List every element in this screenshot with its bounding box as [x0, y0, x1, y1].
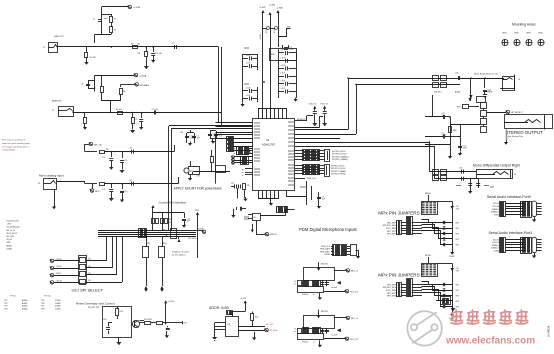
- svg-text:SCLK: SCLK: [57, 266, 63, 268]
- svg-text:MISO: MISO: [57, 273, 62, 275]
- svg-text:SDATA_O: SDATA_O: [491, 211, 500, 214]
- svg-text:GP3: GP3: [455, 239, 459, 241]
- svg-text:R45 49.9: R45 49.9: [434, 92, 442, 94]
- svg-text:GP0: GP0: [455, 285, 459, 287]
- svg-text:Pull-down, R select: Pull-down, R select: [172, 251, 190, 254]
- svg-text:R7: R7: [94, 88, 96, 90]
- svg-text:STEREO OUTPUT: STEREO OUTPUT: [506, 130, 544, 135]
- svg-text:aspect on a pour sounding page: aspect on a pour sounding pages: [2, 142, 30, 145]
- svg-text:xx: xx: [313, 294, 315, 296]
- svg-text:100: 100: [137, 44, 140, 46]
- svg-text:C8: C8: [81, 84, 83, 86]
- svg-text:TP4: TP4: [4, 308, 7, 310]
- svg-text:DGND: DGND: [55, 308, 61, 310]
- svg-text:Serial Audio Interface-Port0: Serial Audio Interface-Port0: [487, 195, 531, 199]
- svg-text:TP7: TP7: [41, 306, 44, 308]
- svg-text:10: 10: [294, 329, 296, 331]
- svg-text:MICVDD: MICVDD: [321, 264, 329, 266]
- svg-text:DGND: DGND: [449, 256, 455, 258]
- svg-text:+3.3VD: +3.3VD: [168, 301, 175, 303]
- svg-text:0.1UF: 0.1UF: [281, 88, 285, 90]
- svg-text:R19: R19: [120, 311, 123, 313]
- svg-text:DGND: DGND: [6, 248, 12, 250]
- svg-text:MP3_SEL: MP3_SEL: [387, 234, 395, 236]
- svg-text:MPx PIN JUMPERS: MPx PIN JUMPERS: [378, 210, 419, 215]
- svg-text:C7: C7: [172, 43, 174, 45]
- svg-text:+3.3VD: +3.3VD: [269, 5, 276, 7]
- svg-text:MIC_L1: MIC_L1: [351, 270, 359, 272]
- svg-text:no-stuff: no-stuff: [331, 286, 337, 289]
- svg-text:MP0_SEL: MP0_SEL: [387, 284, 395, 286]
- svg-text:SCLK_JMP: SCLK_JMP: [386, 290, 396, 292]
- svg-text:R17: R17: [147, 243, 150, 245]
- svg-text:SPORT0_SDATA_O: SPORT0_SDATA_O: [332, 155, 350, 158]
- svg-text:DGND: DGND: [55, 306, 61, 308]
- svg-text:xx: xx: [313, 342, 315, 344]
- svg-text:C30: C30: [103, 319, 106, 321]
- svg-text:MPx PIN JUMPERS: MPx PIN JUMPERS: [378, 272, 419, 277]
- svg-text:SDATA_I: SDATA_I: [492, 244, 500, 247]
- svg-text:TP1: TP1: [4, 300, 7, 302]
- svg-text:MP3_SEL: MP3_SEL: [387, 296, 395, 298]
- svg-text:+1.8VD: +1.8VD: [259, 7, 266, 9]
- svg-text:C15: C15: [124, 160, 127, 162]
- svg-text:GP1: GP1: [455, 290, 459, 292]
- svg-text:R5: R5: [131, 44, 133, 46]
- svg-text:If the scale of each block of: If the scale of each block of: [2, 139, 25, 142]
- svg-text:no-stuff: no-stuff: [331, 333, 337, 336]
- svg-text:I2C_SCL: I2C_SCL: [266, 324, 273, 326]
- svg-text:0.1UF: 0.1UF: [281, 73, 285, 75]
- svg-text:BCLK0: BCLK0: [493, 239, 499, 241]
- svg-text:MIC_L2: MIC_L2: [351, 318, 359, 320]
- svg-text:GP2: GP2: [455, 234, 459, 236]
- svg-text:SDATA_I: SDATA_I: [492, 208, 500, 211]
- svg-text:PDM_CLK: PDM_CLK: [307, 178, 317, 180]
- svg-text:C11 1uF: C11 1uF: [152, 109, 160, 111]
- svg-text:C50: C50: [459, 168, 462, 170]
- svg-text:0R_no_fit: 0R_no_fit: [6, 229, 15, 232]
- svg-text:Mono analog input: Mono analog input: [39, 173, 64, 177]
- svg-text:LRCLK0: LRCLK0: [492, 206, 499, 208]
- svg-text:R48: R48: [453, 130, 456, 132]
- svg-text:AGND: AGND: [22, 302, 28, 305]
- svg-text:Mounting Holes: Mounting Holes: [512, 23, 536, 27]
- svg-text:GP0: GP0: [455, 223, 459, 225]
- svg-text:AGND: AGND: [22, 299, 28, 302]
- svg-text:R22: R22: [255, 317, 258, 319]
- svg-text:xx: xx: [242, 175, 244, 177]
- svg-text:C22: C22: [231, 183, 234, 185]
- svg-text:C41: C41: [487, 91, 490, 93]
- svg-text:for I2C address: for I2C address: [172, 255, 186, 257]
- svg-text:TP nets: TP nets: [44, 295, 51, 298]
- svg-text:GP4: GP4: [455, 245, 459, 247]
- svg-text:J4: J4: [518, 79, 520, 81]
- svg-text:PDM mic: PDM mic: [302, 342, 309, 344]
- svg-text:PB_RST JP9: PB_RST JP9: [88, 307, 99, 309]
- svg-text:R8: R8: [123, 91, 125, 93]
- svg-text:+3.3VD: +3.3VD: [240, 298, 247, 300]
- svg-text:DGND: DGND: [55, 300, 61, 302]
- svg-text:DGND: DGND: [198, 228, 204, 230]
- svg-text:SPORT0_LRCLK: SPORT0_LRCLK: [332, 154, 347, 156]
- svg-text:SCL/SCLK: SCL/SCLK: [188, 238, 198, 240]
- svg-text:www.elecfans.com: www.elecfans.com: [445, 336, 535, 347]
- svg-text:R11: R11: [106, 149, 109, 151]
- svg-text:xx: xx: [233, 148, 235, 150]
- svg-text:GP1: GP1: [455, 228, 459, 230]
- svg-text:GND: GND: [6, 242, 11, 244]
- svg-text:SPORT1_SDATA: SPORT1_SDATA: [331, 170, 346, 173]
- svg-text:MIC_R2: MIC_R2: [351, 339, 359, 341]
- svg-text:10: 10: [294, 281, 296, 283]
- svg-text:xx: xx: [294, 331, 296, 333]
- svg-text:AINR/JP2: AINR/JP2: [52, 99, 62, 102]
- svg-text:0.1UF: 0.1UF: [281, 50, 285, 52]
- svg-text:VDD: VDD: [195, 210, 200, 212]
- svg-text:GP3: GP3: [455, 301, 459, 303]
- svg-text:Power/Test Pts: Power/Test Pts: [6, 220, 19, 223]
- svg-text:AINL/JP1: AINL/JP1: [54, 35, 64, 38]
- svg-text:TP5: TP5: [41, 300, 44, 302]
- svg-text:SPORT0_SDATA_I: SPORT0_SDATA_I: [332, 158, 349, 161]
- svg-text:PDM_DAT0: PDM_DAT0: [320, 248, 330, 251]
- svg-text:SPORT0_BCLK: SPORT0_BCLK: [332, 151, 346, 153]
- svg-text:xx: xx: [233, 151, 235, 153]
- svg-text:0.1UF: 0.1UF: [246, 63, 250, 65]
- svg-text:C40: C40: [455, 73, 458, 75]
- svg-text:I2C/ SPI SELECT: I2C/ SPI SELECT: [72, 287, 104, 292]
- svg-text:0.1UF: 0.1UF: [246, 55, 250, 57]
- svg-text:Jack Stacked Twin: Jack Stacked Twin: [508, 135, 524, 138]
- svg-text:PDM_CLK: PDM_CLK: [321, 246, 331, 248]
- svg-text:09-048534: 09-048534: [549, 325, 551, 337]
- svg-text:MPSEL: MPSEL: [425, 193, 431, 195]
- svg-text:U4: U4: [253, 217, 255, 219]
- svg-text:TP2: TP2: [4, 303, 7, 305]
- svg-text:TP8: TP8: [41, 308, 44, 310]
- svg-text:GP2: GP2: [455, 296, 459, 298]
- svg-text:PDM_DAT1: PDM_DAT1: [320, 250, 330, 253]
- svg-text:I2C_SDA: I2C_SDA: [270, 329, 278, 332]
- svg-text:Technical Body: Technical Body: [2, 150, 15, 152]
- svg-text:C20: C20: [180, 132, 183, 134]
- svg-text:0.1UF: 0.1UF: [246, 95, 250, 97]
- svg-text:+3.3VA: +3.3VA: [139, 75, 147, 78]
- svg-text:DGND: DGND: [494, 251, 500, 253]
- svg-text:TP6: TP6: [41, 303, 44, 305]
- svg-text:SCLK_JMP: SCLK_JMP: [386, 228, 396, 230]
- svg-text:Ground/Straight: Ground/Straight: [6, 226, 20, 229]
- svg-text:R9 100: R9 100: [116, 109, 122, 111]
- svg-text:0.1UF: 0.1UF: [281, 80, 285, 82]
- svg-text:DGND: DGND: [324, 254, 330, 256]
- svg-text:SS_M: SS_M: [57, 280, 63, 282]
- svg-text:+1.8VA: +1.8VA: [259, 34, 262, 40]
- svg-text:PVDD_XT: PVDD_XT: [321, 103, 329, 105]
- svg-text:DGND: DGND: [55, 303, 61, 305]
- svg-text:MICBIAS: MICBIAS: [140, 84, 150, 87]
- svg-text:C19: C19: [124, 191, 127, 193]
- svg-text:R18: R18: [163, 243, 166, 245]
- svg-text:TP3: TP3: [4, 306, 7, 308]
- svg-text:+3V3: +3V3: [6, 224, 10, 226]
- svg-text:MP1/SDO_SEL: MP1/SDO_SEL: [383, 225, 395, 227]
- svg-text:MP1/SDO_SEL: MP1/SDO_SEL: [383, 287, 395, 289]
- svg-text:Control Port-Interface: Control Port-Interface: [159, 201, 187, 205]
- svg-text:J15_A: J15_A: [6, 238, 12, 241]
- svg-text:MOSI: MOSI: [57, 259, 62, 261]
- svg-text:HP_DETECT: HP_DETECT: [511, 112, 524, 114]
- svg-text:LRCLK0: LRCLK0: [492, 242, 499, 244]
- svg-text:Reset Generator and Control: Reset Generator and Control: [76, 301, 115, 305]
- svg-text:MH2: MH2: [515, 33, 519, 35]
- svg-text:GP4: GP4: [455, 307, 459, 309]
- svg-text:MH4: MH4: [539, 33, 543, 35]
- svg-text:SDATA_O: SDATA_O: [491, 247, 500, 250]
- svg-text:Mono Differential Output Right: Mono Differential Output Right: [473, 163, 520, 167]
- svg-text:MICVDD: MICVDD: [321, 311, 329, 313]
- svg-text:MP2_SEL: MP2_SEL: [387, 293, 395, 295]
- svg-text:DGND: DGND: [494, 214, 500, 216]
- svg-text:R25: R25: [247, 185, 250, 187]
- svg-text:C13: C13: [129, 148, 132, 150]
- svg-text:AGND: AGND: [455, 91, 461, 94]
- svg-text:Serial Audio Interface-Port1: Serial Audio Interface-Port1: [489, 231, 533, 235]
- svg-text:SPORT1_LRCLK: SPORT1_LRCLK: [331, 168, 346, 170]
- svg-text:R20 100K: R20 100K: [144, 319, 153, 321]
- svg-text:C6: C6: [93, 19, 95, 21]
- svg-text:C4 1uF: C4 1uF: [156, 53, 163, 55]
- svg-text:ADAU1787: ADAU1787: [262, 142, 276, 146]
- svg-text:+1.8VA: +1.8VA: [276, 7, 283, 10]
- svg-text:xx: xx: [294, 284, 296, 286]
- svg-text:R6: R6: [138, 53, 140, 55]
- svg-text:R15: R15: [197, 176, 200, 178]
- svg-text:C9: C9: [135, 119, 137, 121]
- svg-text:AGND: AGND: [22, 305, 28, 308]
- svg-text:SPORT1_BCLK: SPORT1_BCLK: [331, 166, 345, 168]
- svg-text:MP_JMP: MP_JMP: [6, 236, 14, 238]
- svg-text:APPLY SHUNT FOR powerdown: APPLY SHUNT FOR powerdown: [174, 186, 222, 190]
- svg-text:MIC_R1: MIC_R1: [351, 291, 359, 293]
- svg-text:Mono Single-End Line Out: Mono Single-End Line Out: [474, 73, 499, 76]
- svg-text:SPORT1_FSYNC: SPORT1_FSYNC: [331, 174, 347, 176]
- svg-text:MH3: MH3: [527, 33, 531, 35]
- svg-text:SELF_BOOT: SELF_BOOT: [6, 233, 18, 235]
- svg-text:0.1UF: 0.1UF: [281, 65, 285, 67]
- svg-text:C18: C18: [102, 189, 105, 191]
- svg-text:MIC_IN: MIC_IN: [94, 145, 102, 147]
- svg-text:PDM mic: PDM mic: [302, 294, 309, 296]
- svg-text:PDM Digital Microphone Inputs: PDM Digital Microphone Inputs: [299, 227, 357, 232]
- svg-text:DVDD_XT: DVDD_XT: [309, 103, 317, 105]
- svg-text:xx: xx: [242, 172, 244, 174]
- svg-text:C17: C17: [129, 180, 132, 182]
- svg-text:AGND: AGND: [6, 244, 12, 247]
- svg-text:AGND: AGND: [22, 307, 28, 310]
- svg-text:0.1UF: 0.1UF: [246, 87, 250, 89]
- svg-text:C14: C14: [102, 157, 105, 159]
- svg-text:SELFBOOT: SELFBOOT: [297, 119, 306, 121]
- svg-text:xx: xx: [233, 153, 235, 155]
- svg-text:The images have full measure i: The images have full measure in: [2, 145, 29, 148]
- svg-text:MH1: MH1: [503, 33, 507, 35]
- svg-text:R4 47K: R4 47K: [90, 57, 97, 59]
- svg-text:R2: R2: [114, 30, 116, 32]
- svg-text:MP0_SEL: MP0_SEL: [387, 222, 395, 224]
- svg-text:BCLK0: BCLK0: [493, 203, 499, 205]
- svg-text:SWCLK: SWCLK: [270, 234, 277, 236]
- svg-text:ADDR: 0x50: ADDR: 0x50: [209, 306, 229, 310]
- svg-text:xx: xx: [242, 169, 244, 171]
- svg-text:MP2_SEL: MP2_SEL: [387, 231, 395, 233]
- svg-text:TP list: TP list: [10, 295, 16, 298]
- svg-text:0.1UF: 0.1UF: [281, 57, 285, 59]
- svg-text:+3.3VA: +3.3VA: [133, 6, 141, 9]
- svg-text:MPSEL: MPSEL: [425, 255, 431, 257]
- svg-text:J6: J6: [514, 174, 516, 176]
- svg-text:R1: R1: [114, 19, 116, 21]
